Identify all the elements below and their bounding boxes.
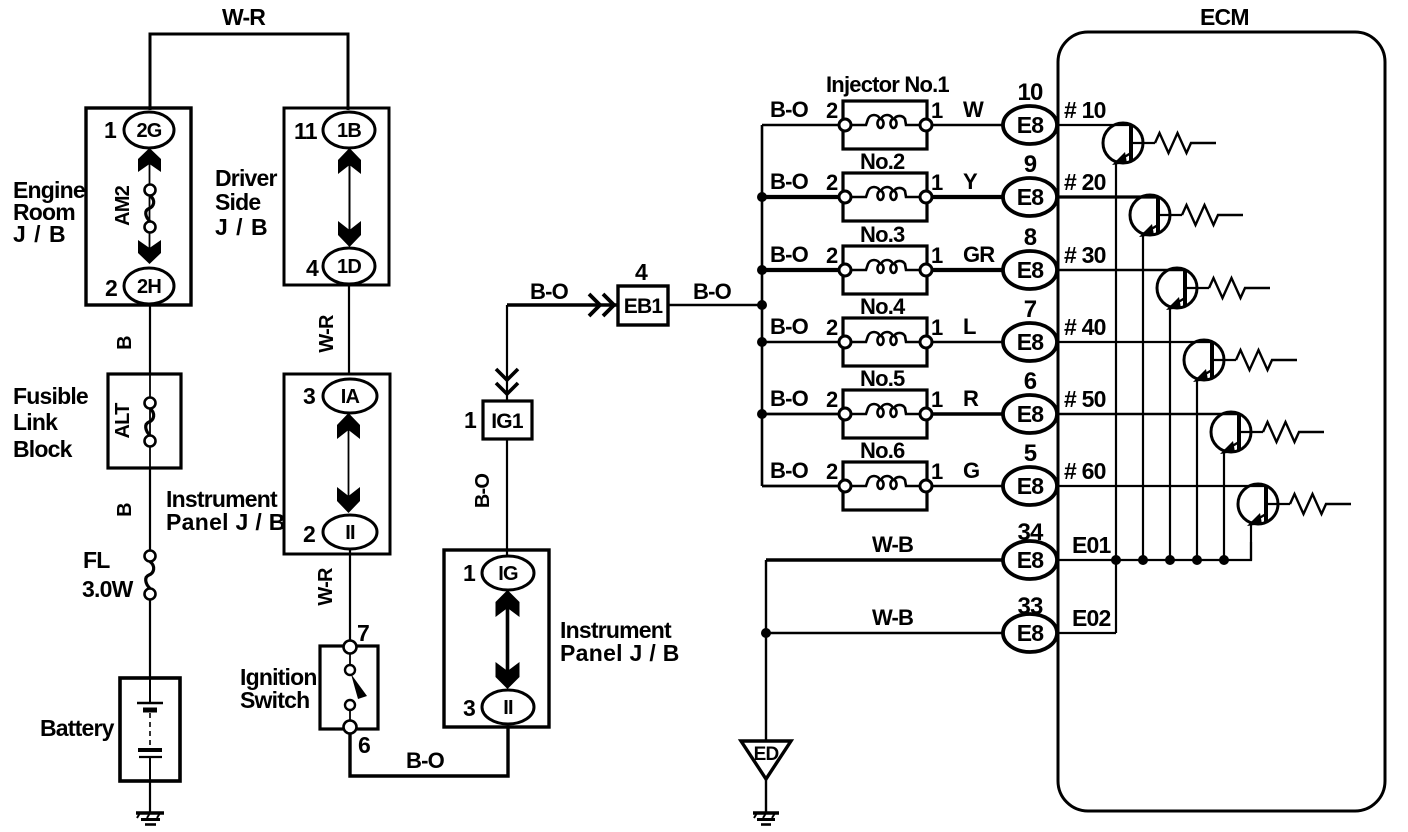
svg-text:E8: E8 bbox=[1017, 184, 1045, 210]
svg-text:1: 1 bbox=[931, 387, 943, 412]
connector E8 pin 10 bbox=[1003, 79, 1057, 144]
svg-text:2: 2 bbox=[303, 521, 315, 547]
wire emitter Q2 to E01 bus bbox=[1142, 234, 1144, 560]
wire E01 bus inside ECM bbox=[1057, 542, 1251, 560]
svg-text:9: 9 bbox=[1024, 151, 1037, 178]
svg-text:ECM: ECM bbox=[1200, 4, 1249, 30]
wire (ED to ground) bbox=[765, 779, 767, 812]
junction box Engine Room J/B bbox=[13, 108, 191, 305]
wire B-O (bus to injector No.6) bbox=[762, 485, 840, 488]
svg-text:B-O: B-O bbox=[770, 314, 809, 339]
junction (emitter Q2 on E01 bus) bbox=[1138, 555, 1148, 565]
wire E02 to emitter bus riser bbox=[1057, 632, 1116, 634]
junction (bus row 5) bbox=[757, 409, 767, 419]
junction (bus row 3) bbox=[757, 265, 767, 275]
wire (# 40 to transistor Q4) bbox=[1057, 341, 1212, 343]
wire emitter Q4 to E01 bus bbox=[1196, 379, 1198, 560]
resistor R5 bbox=[1263, 422, 1324, 442]
svg-text:6: 6 bbox=[1024, 368, 1037, 395]
svg-text:No.6: No.6 bbox=[860, 438, 905, 463]
wire W-R (II to ignition switch) bbox=[349, 549, 351, 642]
wire (# 20 to transistor Q2) bbox=[1057, 195, 1158, 198]
connector IA pin 3 bbox=[303, 379, 377, 413]
junction box Driver Side J/B bbox=[215, 108, 389, 285]
svg-text:B-O: B-O bbox=[472, 474, 494, 509]
svg-text:E8: E8 bbox=[1017, 112, 1045, 138]
svg-text:Panel J / B: Panel J / B bbox=[166, 509, 286, 535]
wire W (injector 1 to E8) bbox=[932, 124, 1004, 127]
svg-text:3: 3 bbox=[303, 383, 315, 409]
svg-text:Side: Side bbox=[215, 189, 260, 215]
connector E8 pin 5 bbox=[1003, 440, 1057, 505]
fuse AM2 bbox=[112, 160, 156, 250]
svg-text:# 40: # 40 bbox=[1064, 314, 1106, 340]
wire (# 60 to transistor Q6) bbox=[1057, 485, 1266, 487]
injector No.2 bbox=[826, 149, 943, 221]
junction (emitter Q1 on E01 bus) bbox=[1111, 555, 1121, 565]
wire B-O (corner to EB1) bbox=[507, 303, 618, 307]
svg-text:No.5: No.5 bbox=[860, 366, 905, 391]
svg-text:B-O: B-O bbox=[770, 242, 809, 267]
Fusible Link Block bbox=[13, 374, 181, 468]
connector 2H pin 2 bbox=[105, 268, 174, 304]
svg-text:2G: 2G bbox=[136, 120, 161, 142]
svg-text:1: 1 bbox=[931, 243, 943, 268]
transistor Q5 bbox=[1211, 412, 1263, 454]
transistor Q6 bbox=[1238, 484, 1290, 526]
connector 2G pin 1 bbox=[104, 112, 174, 148]
svg-text:E01: E01 bbox=[1072, 532, 1112, 558]
junction box Instrument Panel J/B (lower) bbox=[444, 550, 680, 727]
injector No.1 bbox=[826, 72, 949, 149]
transistor Q3 bbox=[1157, 268, 1209, 310]
wire W-R (1D to IA) bbox=[348, 284, 350, 375]
svg-text:IG: IG bbox=[498, 563, 518, 585]
svg-text:1: 1 bbox=[931, 98, 943, 123]
svg-text:4: 4 bbox=[306, 255, 319, 281]
svg-text:1: 1 bbox=[931, 315, 943, 340]
connector E8 pin 8 bbox=[1003, 224, 1057, 289]
svg-text:6: 6 bbox=[358, 732, 370, 758]
svg-text:W-R: W-R bbox=[222, 4, 266, 30]
svg-text:J / B: J / B bbox=[13, 221, 67, 247]
resistor R6 bbox=[1290, 494, 1351, 514]
svg-text:Y: Y bbox=[963, 169, 978, 194]
svg-text:IG1: IG1 bbox=[491, 410, 524, 433]
svg-text:B: B bbox=[114, 503, 136, 517]
svg-text:B-O: B-O bbox=[770, 169, 809, 194]
connector 1D pin 4 bbox=[306, 248, 375, 284]
svg-text:1B: 1B bbox=[337, 120, 361, 142]
svg-text:Panel J / B: Panel J / B bbox=[560, 640, 680, 666]
svg-text:W-B: W-B bbox=[872, 605, 913, 630]
svg-text:1: 1 bbox=[931, 459, 943, 484]
svg-text:W-B: W-B bbox=[872, 532, 913, 557]
svg-text:W-R: W-R bbox=[316, 314, 338, 353]
connector IG1 pin 1 bbox=[464, 401, 532, 439]
connector E8 pin 6 bbox=[1003, 368, 1057, 433]
connector IG pin 1 bbox=[463, 556, 534, 590]
junction (emitter Q5 on E01 bus) bbox=[1219, 555, 1229, 565]
svg-text:7: 7 bbox=[1024, 296, 1037, 323]
ignition switch SW bbox=[240, 620, 378, 758]
svg-text:B-O: B-O bbox=[770, 386, 809, 411]
transistor Q2 bbox=[1130, 195, 1182, 237]
wire emitter Q3 to E01 bus bbox=[1169, 307, 1171, 560]
svg-text:2: 2 bbox=[826, 315, 838, 340]
svg-text:R: R bbox=[963, 386, 979, 411]
pass-through arrow down (Engine Room J/B) bbox=[138, 240, 161, 264]
pass-through arrows (Driver Side J/B) bbox=[338, 148, 361, 247]
svg-text:E8: E8 bbox=[1017, 329, 1045, 355]
svg-text:E8: E8 bbox=[1017, 257, 1045, 283]
junction box Instrument Panel J/B (upper) bbox=[166, 374, 390, 554]
wire G (injector 6 to E8) bbox=[932, 485, 1004, 488]
svg-text:4: 4 bbox=[635, 259, 648, 285]
svg-text:# 60: # 60 bbox=[1064, 458, 1106, 484]
connector EB1 pin 4 bbox=[618, 259, 668, 325]
svg-text:ED: ED bbox=[754, 744, 779, 765]
connector E8 pin 33 bbox=[1003, 593, 1057, 652]
wire R (injector 5 to E8) bbox=[932, 412, 1004, 415]
svg-text:# 30: # 30 bbox=[1064, 242, 1106, 268]
svg-text:7: 7 bbox=[357, 620, 369, 646]
injector No.6 bbox=[826, 438, 943, 510]
wire B-O (bus to injector No.2) bbox=[762, 195, 840, 199]
ground (ED) bbox=[753, 813, 779, 825]
pass-through arrows (Instrument Panel J/B upper) bbox=[337, 413, 360, 513]
resistor R2 bbox=[1182, 205, 1243, 225]
wire W-B (to E02) bbox=[766, 632, 1004, 634]
resistor R3 bbox=[1209, 278, 1270, 298]
ground connector ED bbox=[741, 741, 791, 779]
wire W-B ground drop (E01/E02 to ED) bbox=[765, 560, 767, 740]
svg-text:1: 1 bbox=[104, 117, 117, 143]
fusible link FL 3.0W bbox=[145, 551, 156, 600]
svg-text:# 10: # 10 bbox=[1064, 97, 1106, 123]
chevrons into EB1 bbox=[589, 294, 614, 316]
wire GR (injector 3 to E8) bbox=[932, 268, 1004, 272]
svg-text:2H: 2H bbox=[137, 276, 161, 298]
wire emitter Q5 to E01 bus bbox=[1223, 451, 1225, 560]
wire (# 10 to transistor Q1) bbox=[1057, 124, 1131, 126]
svg-text:10: 10 bbox=[1017, 79, 1043, 106]
wire Y (injector 2 to E8) bbox=[932, 195, 1004, 199]
svg-text:1: 1 bbox=[463, 560, 476, 586]
svg-text:11: 11 bbox=[294, 118, 318, 144]
svg-text:B-O: B-O bbox=[406, 748, 445, 773]
svg-text:5: 5 bbox=[1024, 440, 1037, 467]
fusible link ALT bbox=[112, 374, 156, 468]
junction (emitter Q4 on E01 bus) bbox=[1192, 555, 1202, 565]
svg-text:Link: Link bbox=[13, 409, 58, 435]
ground (battery) bbox=[136, 813, 164, 825]
svg-text:W-R: W-R bbox=[315, 567, 337, 606]
svg-text:G: G bbox=[963, 458, 979, 483]
pass-through arrow up (Engine Room J/B) bbox=[138, 148, 161, 172]
injector No.3 bbox=[826, 222, 943, 294]
svg-text:B-O: B-O bbox=[770, 458, 809, 483]
wire B-O (bus to injector No.5) bbox=[762, 413, 840, 416]
connector 1B pin 11 bbox=[294, 112, 375, 148]
svg-text:E8: E8 bbox=[1017, 620, 1045, 646]
svg-text:Injector No.1: Injector No.1 bbox=[826, 72, 949, 97]
svg-text:E8: E8 bbox=[1017, 401, 1045, 427]
wire W-R top (2G to 1B) bbox=[150, 34, 348, 110]
injector No.4 bbox=[826, 294, 943, 366]
svg-text:2: 2 bbox=[826, 459, 838, 484]
wire emitter Q6 to E01 bus bbox=[1250, 523, 1252, 560]
svg-text:E02: E02 bbox=[1072, 605, 1111, 631]
junction (E02 wire at ground drop) bbox=[761, 628, 771, 638]
svg-text:E8: E8 bbox=[1017, 473, 1045, 499]
svg-text:EB1: EB1 bbox=[624, 295, 664, 318]
wire B (2H to Fusible Link Block) bbox=[149, 304, 151, 375]
wire B-O (bus to injector No.4) bbox=[762, 341, 840, 344]
svg-text:Battery: Battery bbox=[40, 715, 115, 741]
svg-text:# 20: # 20 bbox=[1064, 169, 1106, 195]
svg-text:E8: E8 bbox=[1017, 547, 1045, 573]
connector E8 pin 34 bbox=[1003, 519, 1057, 579]
svg-text:No.3: No.3 bbox=[860, 222, 905, 247]
svg-text:W: W bbox=[963, 97, 984, 122]
junction (bus row 4) bbox=[757, 337, 767, 347]
svg-text:B: B bbox=[114, 336, 136, 350]
svg-text:2: 2 bbox=[105, 275, 117, 301]
svg-text:Driver: Driver bbox=[215, 165, 278, 191]
svg-text:FL: FL bbox=[83, 547, 110, 573]
wire W-B (to E01) bbox=[766, 558, 1004, 562]
svg-text:3.0W: 3.0W bbox=[82, 576, 134, 602]
junction (EB1 wire to bus) bbox=[757, 300, 767, 310]
svg-text:B-O: B-O bbox=[693, 279, 732, 304]
svg-text:3: 3 bbox=[463, 695, 475, 721]
resistor R4 bbox=[1236, 350, 1297, 370]
battery BAT bbox=[40, 678, 180, 781]
wire (battery to ground) bbox=[149, 781, 151, 812]
junction (bus row 2) bbox=[757, 192, 767, 202]
svg-text:GR: GR bbox=[963, 242, 995, 267]
svg-text:ALT: ALT bbox=[112, 403, 134, 439]
resistor R1 bbox=[1155, 133, 1216, 153]
svg-text:2: 2 bbox=[826, 98, 838, 123]
svg-text:Switch: Switch bbox=[240, 687, 309, 713]
wire (# 30 to transistor Q3) bbox=[1057, 269, 1185, 271]
svg-text:# 50: # 50 bbox=[1064, 386, 1106, 412]
svg-text:L: L bbox=[963, 314, 976, 339]
wire emitter Q1 to E01 bus bbox=[1115, 162, 1117, 633]
B-O bus (injector feed) bbox=[761, 125, 764, 486]
connector II pin 2 bbox=[303, 515, 377, 549]
wire L (injector 4 to E8) bbox=[932, 341, 1004, 344]
pass-through arrows (Instrument Panel J/B lower) bbox=[496, 590, 520, 689]
injector No.5 bbox=[826, 366, 943, 438]
svg-text:II: II bbox=[345, 522, 355, 544]
svg-text:J / B: J / B bbox=[215, 214, 269, 240]
svg-text:1: 1 bbox=[931, 170, 943, 195]
connector E8 pin 9 bbox=[1003, 151, 1057, 216]
svg-text:II: II bbox=[503, 697, 513, 719]
svg-text:Block: Block bbox=[13, 436, 73, 462]
svg-text:IA: IA bbox=[341, 386, 360, 408]
junction (emitter Q3 on E01 bus) bbox=[1165, 555, 1175, 565]
wire (FL to battery) bbox=[149, 599, 151, 679]
transistor Q4 bbox=[1184, 340, 1236, 382]
svg-text:Fusible: Fusible bbox=[13, 383, 88, 409]
wire B (block to FL) bbox=[149, 468, 151, 551]
svg-text:AM2: AM2 bbox=[112, 185, 134, 226]
svg-text:8: 8 bbox=[1024, 224, 1037, 251]
wire B-O (bus to injector No.1) bbox=[762, 124, 840, 127]
connector E8 pin 7 bbox=[1003, 296, 1057, 361]
wire B-O (IG1 down to IG) bbox=[506, 439, 508, 556]
svg-text:1D: 1D bbox=[337, 256, 361, 278]
wire B-O (EB1 to bus) bbox=[668, 304, 762, 306]
connector II pin 3 bbox=[463, 690, 534, 724]
ECM module box bbox=[1058, 4, 1385, 811]
svg-text:B-O: B-O bbox=[770, 97, 809, 122]
svg-text:No.2: No.2 bbox=[860, 149, 905, 174]
svg-text:2: 2 bbox=[826, 170, 838, 195]
svg-text:No.4: No.4 bbox=[860, 294, 906, 319]
wire B-O (bus to injector No.3) bbox=[762, 268, 840, 272]
wire (# 50 to transistor Q5) bbox=[1057, 413, 1239, 415]
transistor Q1 bbox=[1103, 123, 1155, 165]
svg-text:B-O: B-O bbox=[530, 279, 569, 304]
wire B-O (switch pin 6 to II pin 3) bbox=[350, 727, 508, 776]
svg-text:1: 1 bbox=[464, 407, 477, 433]
svg-text:2: 2 bbox=[826, 387, 838, 412]
wire B-O (bus corner down to IG1) with chevrons bbox=[496, 305, 518, 401]
svg-text:2: 2 bbox=[826, 243, 838, 268]
